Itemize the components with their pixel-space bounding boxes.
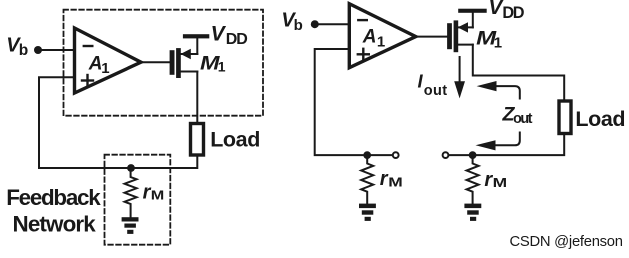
wire load bottom to output node (right) xyxy=(449,134,564,156)
label Feedback Network xyxy=(6,185,101,237)
svg-text:V: V xyxy=(211,22,227,45)
svg-text:CSDN @jefenson: CSDN @jefenson xyxy=(510,234,624,250)
svg-text:1: 1 xyxy=(377,33,385,50)
svg-text:1: 1 xyxy=(101,60,109,77)
svg-text:Network: Network xyxy=(13,212,97,237)
svg-text:out: out xyxy=(513,111,533,127)
terminal open circle output port xyxy=(443,152,449,158)
current arrow Iout xyxy=(454,57,465,98)
label rM (left) xyxy=(143,181,165,203)
wire op-amp output to gate (left) xyxy=(141,61,170,63)
label VDD (left) xyxy=(211,22,248,48)
label Zout xyxy=(502,104,533,128)
wire drain to load (left) xyxy=(196,72,198,123)
svg-text:b: b xyxy=(294,17,303,34)
dashed box feedback network xyxy=(105,155,171,245)
svg-text:Feedback: Feedback xyxy=(6,185,101,210)
resistor rM (right output) xyxy=(467,155,479,203)
wire load bottom to feedback node (left) xyxy=(39,77,197,168)
svg-text:I: I xyxy=(418,71,424,92)
wire op-amp output to gate (right) xyxy=(416,36,447,38)
impedance arrow Zout lower xyxy=(476,133,520,151)
op-amp A1 (right) xyxy=(349,4,416,68)
impedance arrow Zout upper xyxy=(477,81,520,99)
load resistor box (left) xyxy=(191,124,204,156)
label M1 (right) xyxy=(476,28,502,52)
label rM (right output) xyxy=(484,169,507,191)
transistor M1 (left, PMOS) xyxy=(170,38,198,78)
ground (left) xyxy=(122,217,139,234)
ground (right output) xyxy=(464,204,481,221)
op-amp A1 (left) xyxy=(75,28,142,93)
node Vb dot (left) xyxy=(34,46,42,54)
svg-text:out: out xyxy=(424,83,448,99)
svg-text:M: M xyxy=(493,176,508,190)
svg-text:1: 1 xyxy=(218,59,226,75)
transistor M1 (right, PMOS) xyxy=(447,12,473,52)
label Iout xyxy=(418,71,448,99)
svg-text:DD: DD xyxy=(226,31,247,48)
wire Vb to op-amp inverting input (left) xyxy=(38,49,74,51)
label rM (right feedback) xyxy=(380,168,403,190)
label VDD (right) xyxy=(489,0,525,22)
svg-text:A: A xyxy=(362,27,377,48)
svg-text:1: 1 xyxy=(494,35,502,52)
svg-text:b: b xyxy=(19,42,28,59)
terminal open circle feedback port xyxy=(393,152,399,158)
wire op-amp noninverting to feedback node (right) xyxy=(315,49,393,155)
svg-text:Load: Load xyxy=(575,107,625,131)
svg-text:M: M xyxy=(151,188,165,202)
svg-text:M: M xyxy=(388,175,403,189)
wire drain to load (right) xyxy=(473,45,564,100)
label Vb (right) xyxy=(281,9,302,34)
wire Vb to op-amp inverting input (right) xyxy=(315,23,349,25)
label M1 (left) xyxy=(200,54,226,75)
ground (right feedback) xyxy=(359,204,376,221)
resistor rM (left) xyxy=(125,168,137,217)
svg-text:Load: Load xyxy=(210,127,260,151)
node Vb dot (right) xyxy=(311,20,319,28)
power VDD bar (left) xyxy=(183,34,209,38)
resistor rM (right feedback) xyxy=(361,155,373,203)
label Vb (left) xyxy=(6,35,28,60)
node feedback (right) xyxy=(363,151,371,159)
power VDD bar (right) xyxy=(458,9,487,13)
load resistor box (right) xyxy=(559,101,571,134)
dashed box amplifier (left) xyxy=(64,10,264,116)
svg-text:DD: DD xyxy=(502,4,524,22)
node output (right) xyxy=(469,151,477,159)
node feedback (left) xyxy=(127,164,135,172)
